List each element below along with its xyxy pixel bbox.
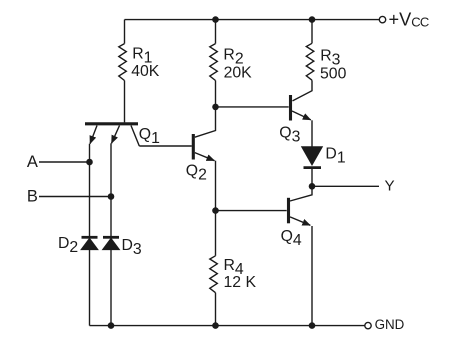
node bottom rail / R4 bbox=[212, 322, 219, 329]
node top rail / R2 bbox=[212, 16, 219, 23]
transistor Q2 collector bbox=[195, 107, 216, 137]
diode D3 triangle bbox=[103, 239, 119, 250]
node output Y junction bbox=[309, 183, 316, 190]
wire D3 anode to bottom rail bbox=[110, 249, 112, 325]
transistor Q2 base bar bbox=[192, 134, 195, 160]
diode D1 triangle bbox=[302, 147, 322, 165]
transistor Q1 emitter 2 bbox=[112, 126, 120, 144]
svg-text:A: A bbox=[27, 153, 38, 171]
wire Q1 collector to Q2 base bbox=[139, 145, 192, 147]
wire Q1 emitter-1 vertical to D2 bbox=[89, 144, 91, 236]
wire output Y bbox=[312, 185, 379, 187]
wire R2 bottom lead bbox=[215, 81, 217, 107]
transistor Q3 emitter bbox=[292, 111, 311, 120]
wire bottom ground rail bbox=[90, 325, 365, 327]
wire Q1 emitter-2 vertical to D3 bbox=[110, 143, 112, 236]
diode D3 cathode bar bbox=[103, 236, 119, 239]
svg-text:+VCC: +VCC bbox=[389, 9, 429, 29]
transistor Q1 emitter 1 bbox=[90, 126, 97, 144]
resistor R4 bbox=[210, 256, 218, 293]
wire R3 bottom lead to Q3 collector bbox=[293, 80, 313, 101]
diode D2 cathode bar bbox=[82, 236, 98, 239]
transistor Q4 collector bbox=[290, 186, 312, 201]
wire Q4 emitter to bottom rail bbox=[311, 226, 313, 326]
wire D2 anode to bottom rail bbox=[89, 249, 91, 325]
svg-text:D2: D2 bbox=[58, 235, 78, 256]
transistor Q3 base bar bbox=[289, 95, 292, 121]
diode D1 cathode bar bbox=[304, 166, 322, 169]
wire input A bbox=[39, 161, 90, 163]
svg-text:Q3: Q3 bbox=[279, 125, 300, 146]
svg-text:D1: D1 bbox=[325, 145, 345, 166]
wire input B bbox=[39, 196, 111, 198]
node input B junction bbox=[108, 193, 115, 200]
wire R1 bottom lead to Q1 base bbox=[124, 81, 126, 123]
svg-text:Y: Y bbox=[385, 178, 395, 195]
terminal GND open circle bbox=[365, 322, 371, 328]
node top rail / R3 bbox=[309, 16, 316, 23]
node input A junction bbox=[86, 159, 93, 166]
terminal +VCC open circle bbox=[379, 16, 385, 22]
node bottom rail / Q4 bbox=[309, 322, 316, 329]
svg-text:B: B bbox=[27, 187, 38, 205]
svg-text:Q1: Q1 bbox=[139, 126, 160, 147]
svg-text:500: 500 bbox=[320, 65, 347, 82]
wire Q2 emitter vertical bbox=[215, 161, 217, 211]
node bottom rail / D3 bbox=[108, 322, 115, 329]
svg-text:20K: 20K bbox=[224, 65, 253, 82]
transistor Q4 emitter bbox=[290, 217, 310, 225]
wire D1 cathode to output node bbox=[311, 169, 313, 186]
svg-text:Q2: Q2 bbox=[186, 163, 207, 184]
transistor Q4 base bar bbox=[287, 198, 290, 224]
wire Q3 emitter to D1 bbox=[311, 120, 313, 147]
resistor R3 bbox=[306, 43, 314, 80]
wire R4 top lead bbox=[215, 211, 217, 256]
transistor Q1 collector bbox=[131, 126, 139, 147]
wire R1 top lead bbox=[124, 20, 126, 44]
svg-text:Q4: Q4 bbox=[281, 228, 302, 249]
wire R4 bottom lead bbox=[215, 293, 217, 326]
wire R2 top lead bbox=[215, 20, 217, 44]
resistor R2 bbox=[210, 44, 218, 81]
node Q2 emitter / Q4 base bbox=[212, 207, 219, 214]
transistor Q1 base bar bbox=[85, 122, 138, 125]
svg-text:GND: GND bbox=[375, 317, 405, 332]
wire R3 top lead bbox=[311, 20, 313, 44]
svg-text:D3: D3 bbox=[122, 237, 142, 258]
svg-text:40K: 40K bbox=[131, 63, 160, 80]
diode D2 triangle bbox=[82, 239, 98, 250]
transistor Q2 emitter bbox=[195, 153, 215, 161]
node Q2 collector / Q3 base bbox=[212, 104, 219, 111]
svg-text:12 K: 12 K bbox=[224, 274, 257, 291]
wire top VCC rail bbox=[125, 19, 380, 21]
resistor R1 bbox=[119, 44, 127, 81]
wire Q2 emitter node to Q4 base bbox=[216, 210, 287, 212]
wire Q2 collector node to Q3 base bbox=[216, 106, 289, 108]
